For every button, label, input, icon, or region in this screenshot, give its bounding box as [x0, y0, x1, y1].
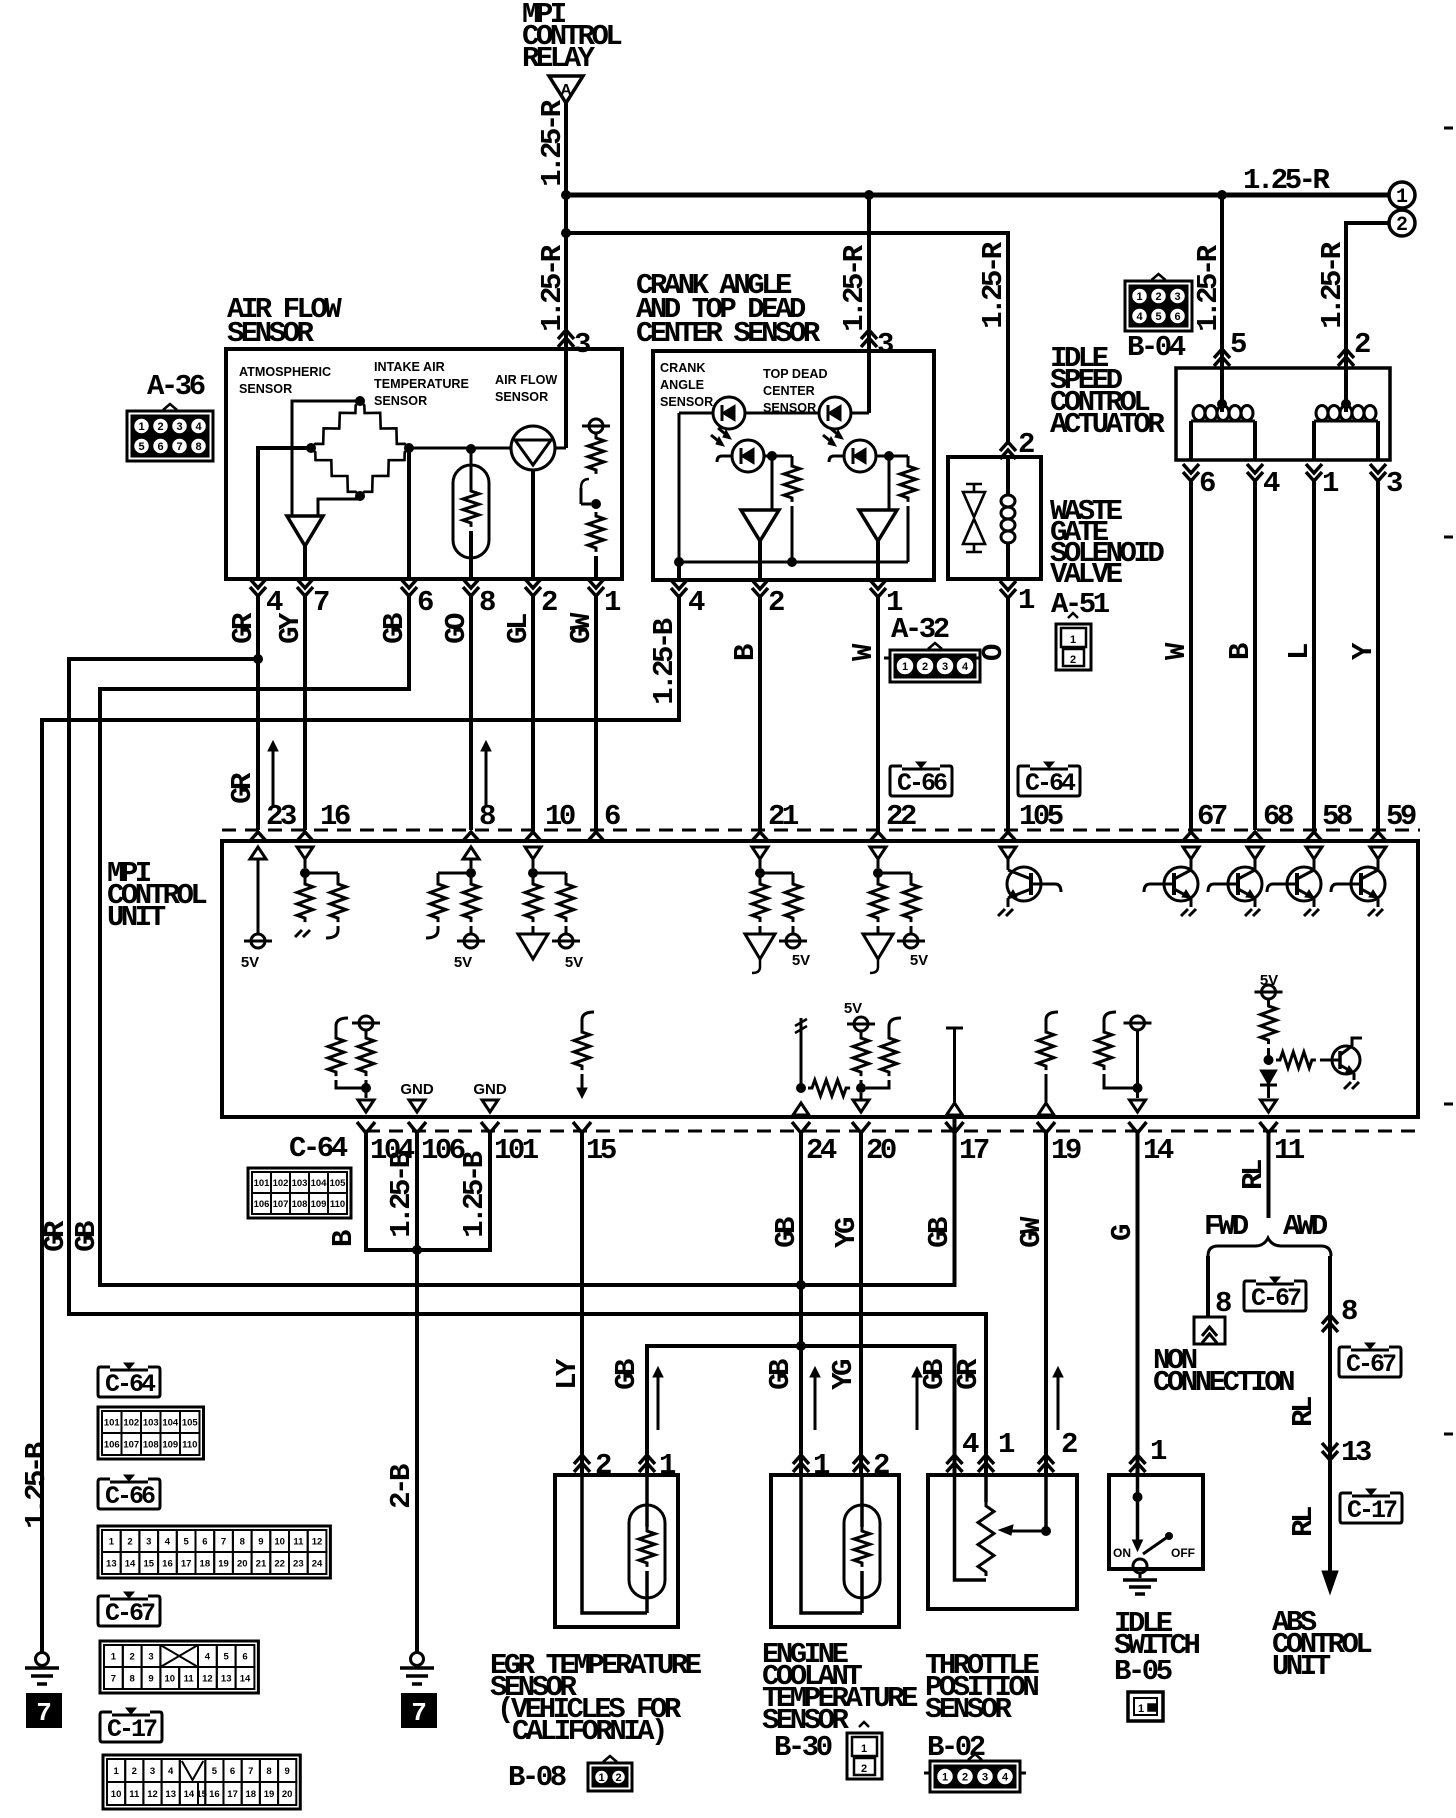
svg-text:GW: GW [1015, 1216, 1048, 1248]
switch lever (idle switch) [1143, 1538, 1166, 1554]
svg-text:5V: 5V [792, 952, 810, 969]
resistor pin22 left to amp [877, 873, 880, 880]
svg-text:1: 1 [861, 1743, 867, 1755]
svg-text:RL: RL [1287, 1507, 1320, 1537]
connector B-04 (6-pin) [1125, 281, 1192, 331]
wire: air flow element to pin 3 riser [555, 447, 566, 450]
node: ground wire join [412, 1245, 422, 1255]
wire: TDC phototransistor output [876, 455, 908, 458]
pin 1 of air flow sensor [588, 579, 604, 596]
wire L: ISC pin 1 to MPI pin 58 [1312, 481, 1316, 830]
base resistor to Q11 [1276, 1052, 1316, 1068]
pin 6 of ISC actuator [1183, 464, 1199, 481]
svg-text:2: 2 [130, 1652, 135, 1663]
svg-text:8: 8 [479, 800, 495, 833]
clamp symbol at pin 24 [800, 1018, 803, 1088]
svg-text:1.25-R: 1.25-R [536, 244, 569, 332]
throttle position sensor box [928, 1475, 1077, 1609]
svg-text:4: 4 [205, 1652, 211, 1663]
svg-text:8: 8 [266, 1766, 271, 1777]
node: second bus junction [561, 228, 571, 238]
svg-text:4: 4 [165, 1537, 171, 1548]
MPI control relay terminal A (triangle) [549, 76, 583, 103]
solenoid coil of waste gate valve [1006, 457, 1010, 496]
wire 1.25-R from relay A down to main bus [564, 103, 568, 236]
svg-text:GB: GB [923, 1217, 956, 1248]
thermistor capsule (EGR) [629, 1505, 665, 1598]
pin 104 of MPI control unit (bottom) [357, 1122, 375, 1133]
svg-text:59: 59 [1386, 800, 1416, 833]
ground reference 7 (left) [27, 1694, 61, 1727]
wire O: waste gate pin 1 to MPI pin 105 [1006, 598, 1010, 830]
svg-text:110: 110 [330, 1199, 345, 1210]
resistor pin8 right to 5V [470, 873, 473, 880]
svg-text:1.25-R: 1.25-R [977, 241, 1010, 329]
svg-text:13: 13 [1341, 1436, 1371, 1469]
pin 1 of coolant temperature sensor [793, 1455, 809, 1472]
svg-text:4: 4 [195, 421, 202, 433]
svg-text:YG: YG [827, 1360, 860, 1390]
wire: bridge right vertex to air-flow sensor element [409, 447, 510, 450]
svg-text:UNIT: UNIT [107, 901, 166, 934]
node: pin 11 junction [1264, 1055, 1274, 1065]
pin 59 driver: triangle [1370, 847, 1386, 859]
wire 2-B from pin 106 to right ground [415, 1133, 419, 1652]
svg-text:6: 6 [1174, 311, 1180, 323]
wire 1.25-R from terminal 2 to idle speed control actuator pin 2 [1346, 223, 1389, 352]
svg-text:109: 109 [162, 1440, 178, 1451]
label: C-67 connector (bottom left) [98, 1596, 160, 1626]
node: TPS wiper to pin 2 [1041, 1526, 1051, 1536]
phototransistor of top dead center sensor [844, 440, 876, 472]
svg-text:101: 101 [254, 1178, 271, 1189]
svg-text:A-32: A-32 [891, 613, 949, 646]
wire: bridge left vertex to pin 4 [258, 448, 311, 579]
wire: air flow element to pin 2 [531, 470, 535, 579]
node: pin16 divider [300, 868, 310, 878]
potentiometer supply symbol (circle with bar) [589, 419, 603, 433]
svg-text:CRANK: CRANK [660, 361, 705, 375]
node: crank resistor to ground bus [787, 557, 797, 567]
svg-text:GB: GB [610, 1359, 643, 1390]
svg-text:OFF: OFF [1171, 1546, 1195, 1560]
wire FWD branch [1206, 1256, 1210, 1317]
connector A-51 (2-pin stacked) [1056, 624, 1091, 670]
svg-text:B-30: B-30 [774, 1731, 832, 1764]
pin 21 of MPI control unit (top) [751, 832, 769, 842]
op-amp (TDC channel triangle) [859, 510, 897, 541]
pull-up circle at pin 14 [1131, 1016, 1145, 1030]
svg-text:105: 105 [1019, 800, 1063, 833]
svg-text:101: 101 [104, 1418, 121, 1429]
pin 6 of air flow sensor [401, 579, 417, 596]
label: C-17 connector (bottom left) [100, 1712, 162, 1742]
svg-text:1.25-R: 1.25-R [1243, 164, 1331, 197]
svg-text:ATMOSPHERIC: ATMOSPHERIC [239, 365, 331, 379]
wire: LED supply rail inside sensor [679, 412, 713, 415]
pin 3 of crank angle sensor [861, 330, 877, 347]
svg-text:CENTER: CENTER [763, 384, 815, 398]
pin 19 marker triangle (up) [1038, 1103, 1054, 1115]
svg-text:14: 14 [125, 1559, 136, 1570]
svg-text:6: 6 [417, 586, 433, 619]
svg-text:2: 2 [873, 1449, 889, 1482]
pin 67 of MPI control unit (top) [1182, 832, 1200, 842]
wire: ground bus to pin 4 [677, 562, 681, 580]
svg-text:7: 7 [221, 1537, 226, 1548]
svg-text:4: 4 [168, 1766, 174, 1777]
svg-text:C-17: C-17 [107, 1715, 157, 1744]
svg-text:8: 8 [1341, 1295, 1357, 1328]
transistor Q105 (waste gate driver) [1007, 867, 1041, 901]
svg-text:22: 22 [886, 800, 916, 833]
wire GW: air flow pin 1 to MPI pin 6 [594, 596, 598, 830]
wire Y: ISC pin 3 to MPI pin 59 [1376, 481, 1380, 830]
resistor inside EGR capsule [639, 1527, 655, 1567]
node: pin10 divider [528, 868, 538, 878]
svg-text:2: 2 [541, 586, 557, 619]
pin 3 of ISC actuator [1370, 464, 1386, 481]
non-connection symbol box [1194, 1317, 1225, 1344]
pin 8 of C-67 (AWD) [1322, 1315, 1338, 1332]
pin 14 of MPI control unit (bottom) [1129, 1122, 1147, 1133]
connector ref C-17 (AWD) [1340, 1493, 1402, 1523]
svg-text:9: 9 [148, 1674, 153, 1685]
svg-text:5V: 5V [241, 954, 259, 971]
connector A-32 (4-pin) [890, 650, 980, 682]
node: potentiometer wiper [591, 499, 601, 509]
pin 101 of MPI control unit (bottom) [481, 1122, 499, 1133]
pin 22 of MPI control unit (top) [869, 832, 887, 842]
svg-text:16: 16 [209, 1789, 220, 1800]
ground at idle switch [1139, 1573, 1142, 1578]
svg-text:11: 11 [293, 1537, 304, 1548]
svg-text:19: 19 [218, 1559, 229, 1570]
svg-text:19: 19 [1051, 1134, 1081, 1167]
svg-text:GW: GW [565, 612, 598, 644]
transistor Q68 (ISC driver) [1228, 867, 1262, 901]
svg-text:2: 2 [861, 1763, 867, 1775]
svg-text:2: 2 [962, 1772, 968, 1784]
svg-text:GR: GR [227, 612, 260, 644]
pin 19 of MPI control unit (bottom) [1037, 1122, 1055, 1133]
svg-text:11: 11 [1274, 1134, 1305, 1167]
node: pin 14 junction [1133, 1083, 1143, 1093]
wire GB: MPI pin 24 to coolant sensor pin 1 [799, 1133, 803, 1475]
svg-text:2: 2 [1070, 654, 1076, 666]
svg-text:107: 107 [123, 1440, 139, 1451]
svg-text:14: 14 [240, 1674, 251, 1685]
pin 2 of idle speed control actuator [1338, 349, 1354, 366]
svg-text:B-05: B-05 [1114, 1655, 1172, 1688]
svg-text:101: 101 [494, 1134, 539, 1167]
svg-text:10: 10 [545, 800, 575, 833]
svg-text:SENSOR: SENSOR [374, 394, 427, 408]
svg-text:1.25-B: 1.25-B [458, 1151, 491, 1238]
node: bus junction for crank sensor drop [864, 190, 874, 200]
wire RL stub from MPI pin 11 [1267, 1133, 1271, 1218]
svg-text:13: 13 [106, 1559, 117, 1570]
connector ref C-64 on wire O [1018, 766, 1080, 796]
wire 1.25-B from pin 101 [417, 1133, 490, 1250]
svg-text:SENSOR: SENSOR [660, 395, 713, 409]
wire: crank amp output to pin 2 [758, 541, 762, 580]
pin 1 of crank angle sensor [870, 580, 886, 597]
arrow (TPS pin 2) [1057, 1375, 1060, 1430]
potentiometer upper resistor [588, 434, 604, 474]
node: right coil tap [1341, 399, 1351, 409]
svg-text:2: 2 [127, 1537, 132, 1548]
svg-text:68: 68 [1263, 800, 1293, 833]
wire: TPS pin 4 internal [955, 1475, 987, 1580]
atmospheric sensor bridge resistor (bottom-left) [311, 448, 360, 496]
svg-text:6: 6 [1199, 467, 1215, 500]
svg-text:C-64: C-64 [1025, 769, 1076, 798]
svg-text:8: 8 [195, 441, 201, 453]
svg-text:3: 3 [146, 1537, 151, 1548]
svg-text:AIR FLOW: AIR FLOW [495, 373, 557, 387]
wire: crank phototransistor output [764, 455, 792, 458]
svg-text:FWD: FWD [1204, 1210, 1249, 1243]
svg-text:9: 9 [285, 1766, 290, 1777]
svg-text:2: 2 [615, 1772, 621, 1784]
node: pin8 divider [466, 868, 476, 878]
connector B-08 (2-pin) [588, 1763, 632, 1791]
svg-text:3: 3 [942, 661, 948, 673]
terminal 1 (circled) [1389, 182, 1415, 208]
wiper hook of potentiometer [581, 479, 589, 488]
idle switch box [1109, 1475, 1203, 1569]
connector ref C-66 on wire W [890, 766, 952, 796]
pin 2 of air flow sensor [525, 579, 541, 596]
pin 4 of crank angle sensor [671, 580, 687, 597]
air flow sensor box [226, 349, 622, 579]
terminal 2 (circled) [1389, 210, 1415, 236]
pin 11 of MPI control unit (bottom) [1260, 1122, 1278, 1133]
svg-text:RL: RL [1237, 1160, 1270, 1190]
svg-text:109: 109 [311, 1199, 327, 1210]
wire: bridge top vertex to amplifier input [292, 401, 360, 516]
sense line at pin 17 [946, 1027, 963, 1030]
wire: main 1.25-R horizontal bus to terminal 1 [564, 193, 1390, 198]
svg-text:CALIFORNIA): CALIFORNIA) [512, 1715, 665, 1748]
wire W: ISC pin 6 to MPI pin 67 [1189, 481, 1193, 830]
svg-text:INTAKE AIR: INTAKE AIR [374, 360, 445, 374]
svg-text:23: 23 [266, 800, 296, 833]
svg-text:20: 20 [866, 1134, 896, 1167]
resistor inside intake air temp capsule [463, 487, 479, 527]
wire GO: air flow pin 8 to MPI pin 8 [469, 596, 473, 830]
pin 23 of MPI control unit (top) [249, 832, 267, 842]
svg-text:67: 67 [1197, 800, 1227, 833]
svg-text:24: 24 [312, 1559, 323, 1570]
MPI control unit box [222, 841, 1418, 1117]
svg-text:4: 4 [1002, 1772, 1009, 1784]
svg-text:19: 19 [264, 1789, 275, 1800]
svg-text:UNIT: UNIT [1272, 1650, 1331, 1683]
svg-text:CENTER SENSOR: CENTER SENSOR [636, 317, 821, 350]
pin 58 of MPI control unit (top) [1305, 832, 1323, 842]
svg-text:GR: GR [952, 1358, 985, 1390]
node: bus junction for ISC actuator drop [1217, 190, 1227, 200]
svg-text:C-66: C-66 [897, 769, 947, 798]
wire 1.25-R down to air flow sensor pin 3 [564, 236, 568, 448]
svg-text:1: 1 [598, 1772, 604, 1784]
pin 104 marker triangle [358, 1100, 374, 1112]
pin 16 of MPI control unit (top) [296, 832, 314, 842]
svg-text:2: 2 [922, 661, 928, 673]
svg-text:C-66: C-66 [105, 1482, 155, 1511]
node: bridge left vertex [306, 443, 316, 453]
label: C-66 connector (bottom left) [98, 1479, 160, 1509]
svg-text:5: 5 [1155, 311, 1161, 323]
svg-text:16: 16 [162, 1559, 173, 1570]
svg-text:1: 1 [111, 1652, 117, 1663]
svg-text:3: 3 [176, 421, 182, 433]
wire GW: MPI pin 19 to TPS pin 2 [1044, 1133, 1048, 1475]
svg-text:GB: GB [70, 1221, 103, 1252]
wire GY: air flow pin 7 to MPI pin 16 [303, 596, 307, 830]
transistor Q11 [1332, 1046, 1360, 1074]
pin 20 of MPI control unit (bottom) [852, 1122, 870, 1133]
ground (right 2-B) [411, 1653, 424, 1666]
svg-text:1: 1 [109, 1537, 115, 1548]
pin 10 input network: triangle [525, 847, 541, 859]
thermistor capsule (coolant) [844, 1505, 880, 1598]
svg-text:8: 8 [240, 1537, 245, 1548]
input buffer at pin 23 (5V source) [250, 847, 266, 859]
second resistor at pin 20 [889, 1018, 901, 1030]
svg-text:1.25-B: 1.25-B [20, 1442, 53, 1529]
svg-text:6: 6 [157, 441, 163, 453]
connector C-64 pin table (inline) [248, 1168, 351, 1218]
svg-text:108: 108 [292, 1199, 308, 1210]
svg-text:ANGLE: ANGLE [660, 378, 704, 392]
svg-text:23: 23 [293, 1559, 304, 1570]
svg-text:2: 2 [595, 1449, 611, 1482]
svg-text:6: 6 [230, 1766, 235, 1777]
node: bridge top vertex [355, 396, 365, 406]
node: TDC output junction [884, 451, 894, 461]
connector C-66 pin table [98, 1526, 330, 1578]
svg-text:5: 5 [212, 1766, 218, 1777]
arrow to ABS control unit [1322, 1571, 1338, 1594]
wire AWD branch (RL) to ABS control unit [1328, 1256, 1332, 1572]
svg-text:8: 8 [130, 1674, 135, 1685]
svg-text:VALVE: VALVE [1050, 558, 1123, 591]
svg-text:17: 17 [181, 1559, 192, 1570]
svg-text:5V: 5V [844, 1000, 862, 1017]
svg-text:GB: GB [770, 1217, 803, 1248]
pin 4 of air flow sensor [250, 579, 266, 596]
5V pull-up at pin 20 [854, 1017, 868, 1031]
svg-text:107: 107 [273, 1199, 289, 1210]
svg-text:6: 6 [242, 1652, 247, 1663]
resistor network at pin 104 (power ground) [336, 1018, 348, 1030]
wire: second 1.25-R horizontal to waste gate solenoid drop [566, 233, 1008, 445]
svg-text:L: L [1283, 644, 1316, 660]
pin 8 of air flow sensor [463, 579, 479, 596]
EGR temperature sensor box [555, 1475, 678, 1627]
svg-text:B-02: B-02 [927, 1731, 985, 1764]
svg-text:110: 110 [182, 1440, 197, 1451]
svg-text:2-B: 2-B [385, 1464, 418, 1509]
resistor at pin 15 [582, 1012, 594, 1024]
connector C-67 pin table [100, 1641, 258, 1693]
wire B: ISC pin 4 to MPI pin 68 [1253, 481, 1257, 830]
pin 16 input network: triangle [297, 847, 313, 859]
wire: pin 5 into left coil [1220, 368, 1224, 412]
svg-text:7: 7 [176, 441, 182, 453]
svg-text:2: 2 [1396, 214, 1408, 237]
resistor pin22 right to 5V [910, 873, 913, 880]
svg-text:1.25-R: 1.25-R [838, 244, 871, 332]
svg-text:17: 17 [227, 1789, 238, 1800]
node: main 1.25-R bus junction at relay drop [561, 190, 571, 200]
svg-text:2: 2 [1061, 1428, 1077, 1461]
svg-text:C-67: C-67 [1251, 1284, 1301, 1313]
wire: amplifier output to pin 7 [303, 546, 307, 579]
wire YG: MPI pin 20 to coolant sensor pin 2 [859, 1133, 863, 1475]
svg-text:1.25-R: 1.25-R [536, 99, 569, 187]
svg-text:22: 22 [274, 1559, 285, 1570]
idle speed control actuator box [1176, 368, 1390, 460]
node: pin 20 junction [856, 1083, 866, 1093]
svg-text:C-64: C-64 [289, 1132, 348, 1165]
wire: coolant pin 1 internal [801, 1475, 862, 1613]
wire: internal ground bus [679, 561, 908, 564]
resistor pin16 right [337, 873, 340, 880]
svg-text:1.25-B: 1.25-B [385, 1151, 418, 1238]
wire: bridge bottom vertex to amplifier [318, 496, 360, 516]
pin 68 driver: triangle [1247, 847, 1263, 859]
svg-text:12: 12 [312, 1537, 323, 1548]
op-amp (crank channel triangle) [741, 510, 779, 541]
potentiometer lower resistor [588, 512, 604, 552]
node: GB net at line A [796, 1280, 806, 1290]
atmospheric sensor bridge resistor (top-left) [311, 401, 360, 448]
wire B: crank pin 2 to MPI pin 21 [758, 597, 762, 830]
wire: capsule to pin 8 [469, 531, 473, 579]
pin 59 of MPI control unit (top) [1369, 832, 1387, 842]
pin 22 input network: triangle [870, 847, 886, 859]
pin 8 of MPI control unit (top) [462, 832, 480, 842]
svg-text:GB: GB [918, 1359, 951, 1390]
pin 105 of MPI control unit (top) [999, 832, 1017, 842]
svg-text:11: 11 [184, 1674, 195, 1685]
svg-text:GL: GL [502, 614, 535, 644]
node: bridge right vertex [404, 443, 414, 453]
svg-text:8: 8 [479, 586, 495, 619]
svg-text:14: 14 [184, 1789, 195, 1800]
svg-text:TOP DEAD: TOP DEAD [763, 367, 828, 381]
wire 1.25-R down to ISC actuator pin 5 [1220, 195, 1224, 404]
svg-text:103: 103 [143, 1418, 159, 1429]
pin 7 of air flow sensor [297, 579, 313, 596]
svg-text:11: 11 [129, 1789, 140, 1800]
pin 1 of ISC actuator [1306, 464, 1322, 481]
wire: bridge right vertex down to pin 6 [407, 448, 411, 579]
svg-text:106: 106 [104, 1440, 120, 1451]
connector B-02 (4-pin) [930, 1761, 1020, 1792]
svg-text:LY: LY [551, 1358, 584, 1390]
wire: left winding legs to pins 6 and 4 [1189, 421, 1193, 460]
svg-text:GND: GND [400, 1081, 434, 1098]
potentiometer resistor (TPS) [984, 1475, 988, 1502]
wire GB branch line C to EGR pin 1 and TPS pin 4 [647, 1346, 955, 1475]
svg-text:12: 12 [147, 1789, 158, 1800]
coil (left winding of ISC actuator) [1191, 420, 1255, 423]
